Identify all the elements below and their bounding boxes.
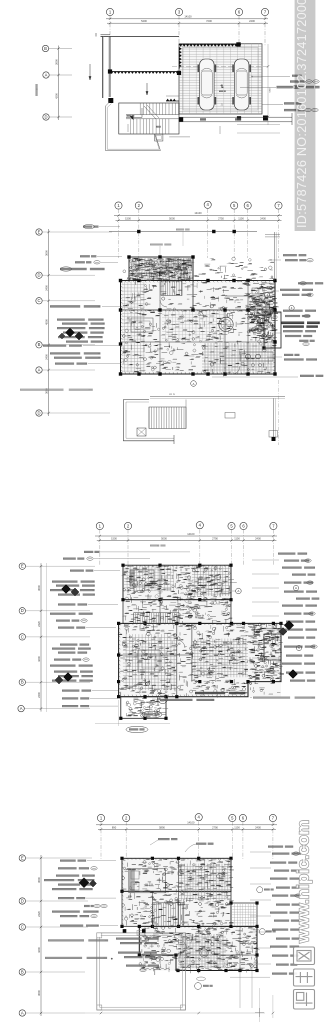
svg-text:A: A <box>20 706 23 711</box>
floor3 bottom dims <box>85 995 274 1018</box>
floor2 overall dim <box>95 532 277 537</box>
floor1 right callout r6 <box>299 340 315 346</box>
row bubble E (floor3) <box>19 855 92 861</box>
left vertical dimension roof <box>54 46 59 121</box>
floor2 bottom left notes <box>62 692 63 694</box>
floor2 left callout wall1 <box>50 613 93 615</box>
floor2 clutter top wing <box>121 566 237 624</box>
svg-text:1500: 1500 <box>125 217 131 221</box>
row bubble C (floor2) <box>19 634 90 640</box>
floor2 right bubble B <box>296 645 301 650</box>
floor3 scallop edge <box>140 969 170 971</box>
floor3 main body walls <box>139 926 257 970</box>
floor1 left dense cluster <box>57 319 105 343</box>
floor2 bottom oval <box>142 711 162 718</box>
floor2 left vdim inner <box>46 563 48 712</box>
grid line 6 vertical <box>238 16 240 47</box>
svg-text:2400: 2400 <box>44 285 48 291</box>
floor3 grid verticals <box>101 822 273 860</box>
floor3 tile top right <box>179 864 231 901</box>
floor3 interior wall v1 <box>178 858 180 926</box>
svg-text:14100: 14100 <box>187 821 195 825</box>
floor1 balcony post 2 <box>269 431 278 442</box>
car 2 in carport <box>232 59 251 110</box>
column G3-bottom <box>179 117 183 121</box>
roof right leader callout 1 <box>251 75 302 78</box>
column G3-mid <box>177 71 181 75</box>
svg-text:3600: 3600 <box>37 585 41 591</box>
row bubble D (floor1) <box>36 272 95 278</box>
floor1 terrace stair <box>149 407 186 429</box>
floor2 left callout stove <box>62 697 118 699</box>
svg-text:E: E <box>21 855 24 860</box>
row bubble A (floor3) <box>19 1010 85 1016</box>
floor2 round feature <box>157 693 167 703</box>
floor1 tile hall <box>162 311 224 341</box>
floor2 tile bath top <box>192 566 230 596</box>
floor3 left note long2 <box>45 957 113 960</box>
svg-text:2790: 2790 <box>212 537 218 541</box>
grid bubble 2 (floor3) <box>123 814 130 821</box>
row bubble A (floor1) <box>36 367 95 373</box>
floor1 wall ticks left <box>121 282 123 371</box>
floor3 interior wall h1 <box>176 926 257 970</box>
floor3 interior tint <box>122 858 257 970</box>
floor1 kitchen counter <box>240 352 273 361</box>
grid bubble 3 (roof plan) <box>175 8 182 15</box>
svg-text:5400: 5400 <box>141 19 147 23</box>
svg-text:14100: 14100 <box>187 532 195 536</box>
floor1 right bay <box>264 312 281 348</box>
floor1 grid verticals <box>119 209 279 258</box>
svg-text:3600: 3600 <box>44 250 48 256</box>
svg-text:2420: 2420 <box>37 621 41 627</box>
floor1 left callout rain pipe <box>75 261 118 264</box>
floor1 tile top wing <box>129 258 194 283</box>
row bubble D (floor2) <box>19 608 90 614</box>
row bubble D (floor3) <box>19 898 88 904</box>
roof carport tint <box>179 44 262 114</box>
svg-text:1500: 1500 <box>111 537 117 541</box>
svg-text:C: C <box>21 634 24 639</box>
svg-text:C: C <box>21 924 24 929</box>
row bubble C (floor3) <box>19 924 88 930</box>
svg-text:A: A <box>45 72 48 77</box>
floor2 clutter main <box>118 623 281 698</box>
floor1 wall ticks top <box>121 281 274 283</box>
grid bubble 6 (floor1) <box>244 202 251 209</box>
floor1 right note bottom <box>212 375 323 377</box>
floor2 left cluster2 <box>52 671 93 682</box>
floor1 grid7 line lower <box>278 380 280 445</box>
floor2 right edge dense <box>248 624 285 684</box>
floor3 left callout c2 <box>58 867 97 870</box>
floor2 stair treads <box>134 613 179 624</box>
floor2 left callout top1 <box>84 551 190 553</box>
svg-text:D: D <box>21 608 24 613</box>
floor1 left callout floor1a <box>50 352 100 354</box>
svg-text:3600: 3600 <box>37 990 41 996</box>
roof right callout 4 <box>262 102 302 104</box>
floor3 terrace parapet <box>97 931 186 1011</box>
grid bubble 4 (floor1) <box>204 201 211 208</box>
floor3 top wing walls <box>122 858 231 891</box>
floor2 wing bubble <box>232 588 241 594</box>
floor1 wall ticks right <box>273 282 275 371</box>
floor1 wall ticks mid <box>121 310 274 312</box>
ID watermark text <box>295 0 309 228</box>
svg-text:B: B <box>21 969 24 974</box>
svg-text:14100: 14100 <box>194 211 202 215</box>
grid bubble 5 (floor2) <box>228 522 235 529</box>
floor2 door arcs <box>160 600 185 648</box>
floor1 left callout tea <box>55 363 121 365</box>
floor2 right diamonds <box>279 621 298 679</box>
svg-text:7200: 7200 <box>206 19 212 23</box>
svg-text:2600: 2600 <box>54 59 58 65</box>
carport sawtooth top edge <box>179 44 241 47</box>
floor3 right leaders <box>250 852 271 964</box>
grid line 3 vertical <box>178 16 180 47</box>
grid bubble 2 (floor2) <box>124 522 131 529</box>
floor3 stair treads <box>152 903 183 927</box>
floor3 left diamonds <box>79 878 97 888</box>
floor1 terrace parapet <box>123 400 186 445</box>
floor2 left callout cooker <box>62 705 118 707</box>
floor1 top wing walls <box>129 229 193 281</box>
floor1 overall dim <box>114 211 282 217</box>
floor3 mid band walls <box>122 891 231 926</box>
roof right callout 3 <box>240 85 320 88</box>
ID watermark band <box>295 0 316 231</box>
floor3 left callout c6 <box>60 925 118 927</box>
roof terrace parapet <box>106 102 161 151</box>
floor3 mid callout m1 <box>116 938 159 945</box>
floor2 left callout shower <box>58 603 118 605</box>
floor2 bottom dim <box>95 700 170 726</box>
floor1 columns <box>119 255 277 375</box>
row bubble 1/D (roof plan) <box>43 114 72 120</box>
floor2 wall ticks mid <box>120 623 281 625</box>
stair upper treads <box>140 103 178 115</box>
floor2 left callout latex <box>56 619 87 622</box>
roof right callout 2 <box>290 80 319 83</box>
svg-text:ID:5787426 NO:20160102.3724172: ID:5787426 NO:20160102.3724172000 <box>295 0 309 228</box>
floor3 left cluster <box>44 875 95 891</box>
floor1 text below <box>169 381 196 396</box>
grid line 7 vertical <box>264 16 266 47</box>
grid bubble 1 (floor2) <box>96 522 103 529</box>
floor2 interior wall v2 <box>191 623 193 681</box>
grid bubble 1 (floor3) <box>97 814 104 821</box>
floor3 bed <box>129 869 166 893</box>
floor1 tile floor left strip <box>122 282 145 373</box>
grid bubble 1 (roof plan) <box>106 8 113 15</box>
floor3 left note long1 <box>48 939 108 941</box>
carport sawtooth left edge <box>179 47 182 69</box>
floor2 wall ticks right <box>279 624 281 681</box>
svg-text:4200: 4200 <box>37 656 41 662</box>
column G1-1 <box>108 69 112 73</box>
svg-text:E: E <box>21 564 24 569</box>
svg-text:A: A <box>237 589 239 593</box>
svg-text:2420: 2420 <box>37 911 41 917</box>
floor3 left vdim <box>37 855 42 1016</box>
svg-text:3600: 3600 <box>37 877 41 883</box>
svg-text:B: B <box>38 342 41 347</box>
floor2 interior wall v1 <box>176 623 178 696</box>
floor1 left callout floor1b <box>54 357 101 359</box>
floor1 interior wall v1 <box>192 257 194 310</box>
floor2 clutter bottom wing <box>126 698 168 719</box>
floor2 left diamonds2 <box>55 673 73 685</box>
column SE corner <box>263 116 268 121</box>
floor3 wall ticks right <box>256 927 258 968</box>
floor1 stair treads <box>161 258 191 296</box>
floor1 interior wall v3 <box>159 281 161 375</box>
floor3 mid callout m2 <box>118 952 157 959</box>
floor1 interior wall v2 <box>224 310 226 374</box>
floor1 left callout drain tag <box>60 267 105 271</box>
svg-text:14100: 14100 <box>184 15 192 19</box>
carport pergola grid <box>179 44 262 114</box>
grid bubble 4 (floor2) <box>196 522 203 529</box>
floor2 top wing walls <box>123 565 231 600</box>
svg-text:B: B <box>44 46 47 51</box>
grid bubble 5 (floor1) <box>231 202 238 209</box>
floor1 right callout r2 <box>298 282 323 285</box>
floor3 right rooms <box>231 903 257 926</box>
floor1 left callout waste pipe <box>80 255 122 257</box>
svg-text:4200: 4200 <box>54 93 58 99</box>
floor2 left callout basin <box>62 690 118 692</box>
grid bubble 6 (roof plan) <box>235 8 242 15</box>
floor1 sofa group <box>131 318 153 332</box>
grid bubble 7 (floor2) <box>270 522 277 529</box>
carport apron lines <box>179 113 292 133</box>
svg-text:2400: 2400 <box>249 19 255 23</box>
floor2 left callout top2 <box>63 557 150 560</box>
overall dimension line roof <box>106 15 268 20</box>
row bubble B (floor3) <box>19 969 85 975</box>
svg-text:2400: 2400 <box>44 354 48 360</box>
svg-text:2750: 2750 <box>218 217 224 221</box>
floor1 right callout r3 <box>271 289 313 297</box>
car 1 in carport <box>198 59 217 110</box>
stair arrow <box>126 108 162 128</box>
floor1 interior tint <box>121 257 276 374</box>
segment dimension line roof <box>107 19 268 24</box>
floor2 wall ticks left <box>119 624 121 697</box>
wheel stop 1 <box>200 118 206 120</box>
stair lower treads <box>126 115 179 134</box>
row bubble E (floor2) <box>19 563 95 569</box>
floor1 left callout sofa <box>43 345 121 347</box>
upper-left room walls <box>96 33 179 98</box>
svg-text:5000: 5000 <box>169 217 175 221</box>
svg-text:A: A <box>192 382 194 386</box>
svg-text:B: B <box>21 680 24 685</box>
floor3 top note 1 <box>150 838 177 845</box>
floor2 tile big room <box>123 634 177 690</box>
grid bubble 5 (floor3) <box>229 814 236 821</box>
floor3 clutter top <box>122 858 234 928</box>
row bubble E (floor1) <box>36 229 112 235</box>
floor1 balcony edge right <box>150 397 285 438</box>
stair break line <box>144 105 159 119</box>
floor1 interior wall v4 <box>247 281 249 375</box>
floor3 tile big room <box>178 934 226 968</box>
roof left annotation text <box>36 84 39 96</box>
floor1 right callout r1 <box>270 254 313 262</box>
floor3 segment dim <box>98 825 276 830</box>
roof right callout 5 <box>284 108 318 111</box>
floor2 left cluster1 <box>50 581 95 596</box>
svg-text:5890: 5890 <box>159 825 165 829</box>
svg-text:A: A <box>21 1010 24 1015</box>
svg-text:D: D <box>37 410 40 415</box>
floor2 wall ticks top <box>124 565 229 567</box>
floor2 left callout heater <box>50 665 93 667</box>
floor2 bottom wing <box>121 697 166 719</box>
floor3 interior wall v2 <box>151 891 153 926</box>
floor3 tile small <box>232 904 256 926</box>
floor2 bottom oval tag <box>126 726 148 732</box>
floor1 main outer walls <box>121 281 276 375</box>
floor2 right long note <box>250 697 315 699</box>
floor3 clutter main <box>139 926 260 975</box>
floor3 top note 2 <box>185 843 214 852</box>
floor1 clutter main <box>122 257 277 376</box>
terrace corner block <box>155 134 190 141</box>
floor3 left callout c1 <box>60 860 116 862</box>
floor2 bottom note 1 <box>195 692 245 694</box>
grid bubble 2 (floor1) <box>135 202 142 209</box>
floor2 interior wall h1 <box>119 654 192 656</box>
floor2 right bay <box>264 634 281 660</box>
row bubble B (floor2) <box>19 679 90 685</box>
floor1 tile floor kitchen <box>202 343 274 373</box>
floor1 upper right wall pair <box>265 232 280 281</box>
floor2 bottom note 2 <box>160 699 214 701</box>
wheel stop 2 <box>235 118 241 120</box>
floor3 left callout c4 <box>84 904 107 907</box>
grid bubble 7 (floor1) <box>275 202 282 209</box>
stair enclosure roof <box>119 103 179 134</box>
svg-text:A: A <box>295 586 297 590</box>
floor2 table big room <box>138 650 160 672</box>
floor3 terrace top columns <box>123 929 146 933</box>
svg-text:C: C <box>37 298 40 303</box>
floor3 mid callout m3 <box>126 965 159 972</box>
floor2 interior tint <box>119 565 281 697</box>
svg-text:1100: 1100 <box>234 537 240 541</box>
svg-text:2400: 2400 <box>255 825 261 829</box>
grid bubble 6 (floor2) <box>240 522 247 529</box>
row bubble C (floor1) <box>36 298 95 304</box>
floor2 left callout mirror <box>58 627 116 629</box>
floor1 top left tag <box>83 224 120 228</box>
grid bubble 7 (floor3) <box>269 814 276 821</box>
roof dim small right <box>267 44 272 125</box>
floor1 left diamonds <box>59 328 83 340</box>
column G6-bottom <box>237 116 241 120</box>
svg-text:4500: 4500 <box>44 319 48 325</box>
floor2 right bubble A <box>293 585 298 590</box>
floor2 left vdim <box>37 563 42 711</box>
floor3 wall ticks mid <box>140 926 257 928</box>
svg-text:890: 890 <box>112 825 117 829</box>
roof drain arrow in room <box>146 83 148 95</box>
floor2 grid verticals <box>100 530 274 567</box>
floor3 round feature <box>200 949 208 957</box>
nipic watermark url text <box>294 820 313 944</box>
floor1 wall ticks bottom <box>121 372 274 374</box>
floor2 main body walls <box>119 623 281 696</box>
floor2 tile right room <box>192 639 248 678</box>
floor1 segment dim <box>116 217 282 222</box>
row bubble B (floor1) <box>36 342 95 348</box>
floor3 left callout c5 <box>52 911 99 918</box>
floor2 right callout rows <box>278 553 319 682</box>
floor2 left callout latex2 <box>54 658 89 661</box>
nipic watermark glyph ni <box>294 990 315 1010</box>
floor1 right callout dense <box>281 322 320 328</box>
svg-text:2790: 2790 <box>212 825 218 829</box>
column G6-top <box>236 42 240 46</box>
floor2 small note top <box>150 545 166 548</box>
floor1 door arcs <box>160 300 240 374</box>
floor1 clutter dense right <box>247 296 278 335</box>
nipic watermark glyph wang <box>294 947 315 965</box>
floor3 circle callout 1 <box>195 977 213 989</box>
floor2 right leaders <box>252 560 279 672</box>
svg-text:1100: 1100 <box>238 217 244 221</box>
floor1 veranda edge row E <box>109 230 257 233</box>
svg-text:D: D <box>37 273 40 278</box>
grid bubble 7 (roof plan) <box>261 8 268 15</box>
floor2 left callout spray <box>52 644 91 654</box>
floor1 interior wall h3 <box>225 296 275 358</box>
floor1 left vdim <box>44 229 49 416</box>
floor1 right callout r4 <box>272 310 316 318</box>
svg-text:5800: 5800 <box>270 87 272 93</box>
row bubble B (roof plan) <box>42 45 72 51</box>
svg-text:5000: 5000 <box>161 537 167 541</box>
svg-text:2400: 2400 <box>260 217 266 221</box>
floor1 bathroom fixtures <box>248 283 279 341</box>
row bubble A (floor2) <box>18 705 90 711</box>
floor2 bed <box>130 570 154 586</box>
floor3 overall dim <box>96 821 277 826</box>
floor3 wall ticks top <box>123 858 228 860</box>
floor2 wall ticks bot <box>120 695 245 697</box>
carport small symbol <box>219 84 226 106</box>
floor3 wall ticks left <box>122 859 124 924</box>
svg-text:1100: 1100 <box>234 825 240 829</box>
floor1 right callout r5 <box>272 330 316 337</box>
floor3 below leaders <box>230 971 270 1023</box>
floor1 interior wall h1 <box>121 309 276 311</box>
eave sawtooth left wing <box>166 96 179 101</box>
floor1 balcony post 1 <box>225 413 235 419</box>
floor3 circle callout 3 <box>259 929 276 935</box>
ridge sawtooth band <box>110 72 179 74</box>
floor2 tile bedroom1 <box>124 566 174 591</box>
floor3 door arcs <box>152 895 187 948</box>
down arrow at left eave <box>89 64 91 80</box>
svg-text:A: A <box>38 367 41 372</box>
